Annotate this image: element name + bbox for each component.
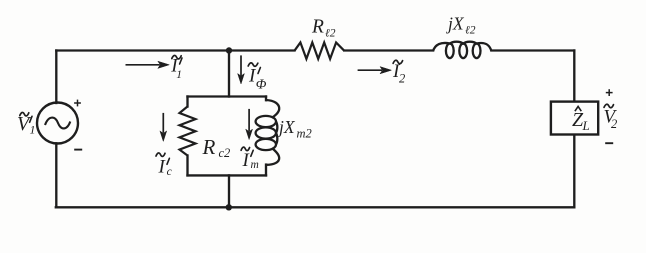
svg-text:m2: m2 (297, 126, 312, 140)
svg-text:m: m (251, 159, 259, 171)
svg-text:1: 1 (30, 122, 36, 136)
svg-text:c: c (167, 166, 172, 178)
svg-text:R: R (202, 135, 216, 159)
svg-text:R: R (311, 17, 324, 38)
svg-text:2: 2 (611, 117, 617, 131)
svg-text:jX: jX (446, 14, 465, 34)
svg-text:jX: jX (277, 117, 296, 137)
svg-text:Φ: Φ (256, 77, 267, 92)
svg-text:2: 2 (399, 71, 405, 85)
svg-text:1: 1 (176, 69, 182, 81)
svg-text:ℓ2: ℓ2 (325, 27, 336, 39)
svg-text:c2: c2 (219, 146, 231, 160)
svg-text:L: L (582, 118, 590, 133)
svg-text:ℓ2: ℓ2 (465, 24, 476, 36)
